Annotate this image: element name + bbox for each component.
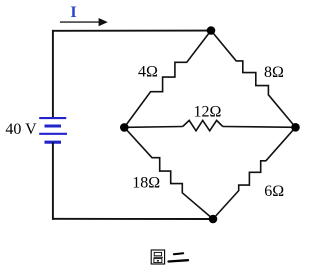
resistor 6Ω (staircase on lower-right diagonal) (213, 127, 296, 219)
wire left vertical upper (top corner to battery +) (52, 30, 54, 118)
wire bottom horizontal (52, 218, 213, 220)
svg-text:18Ω: 18Ω (132, 175, 160, 192)
svg-text:8Ω: 8Ω (264, 64, 284, 81)
node right junction (291, 123, 300, 132)
current arrow I (60, 18, 108, 26)
resistor 8Ω (staircase on upper-right diagonal) (211, 31, 296, 128)
svg-text:12Ω: 12Ω (194, 103, 222, 120)
node left junction (120, 123, 129, 132)
wire top horizontal (53, 30, 211, 32)
wire left vertical lower (battery - to bottom corner) (52, 142, 54, 220)
svg-text:6Ω: 6Ω (264, 183, 284, 200)
resistor 4Ω (staircase on upper-left diagonal) (124, 31, 211, 128)
svg-text:40 V: 40 V (5, 121, 37, 138)
resistor 12Ω (zigzag horizontal) (183, 120, 223, 130)
node bottom junction (209, 215, 218, 224)
resistor 18Ω (staircase on lower-left diagonal) (124, 127, 213, 219)
svg-text:I: I (70, 4, 76, 21)
node top junction (207, 26, 216, 35)
caption 圖 (Figure) drawn as vector strokes (151, 250, 164, 264)
svg-text:4Ω: 4Ω (138, 63, 158, 80)
wire middle-left (left node to 12Ω) (124, 126, 182, 129)
wire middle-right (12Ω to right node) (223, 126, 296, 129)
battery V1 40V (39, 118, 67, 142)
caption 二 (two) drawn as vector strokes (169, 253, 189, 261)
